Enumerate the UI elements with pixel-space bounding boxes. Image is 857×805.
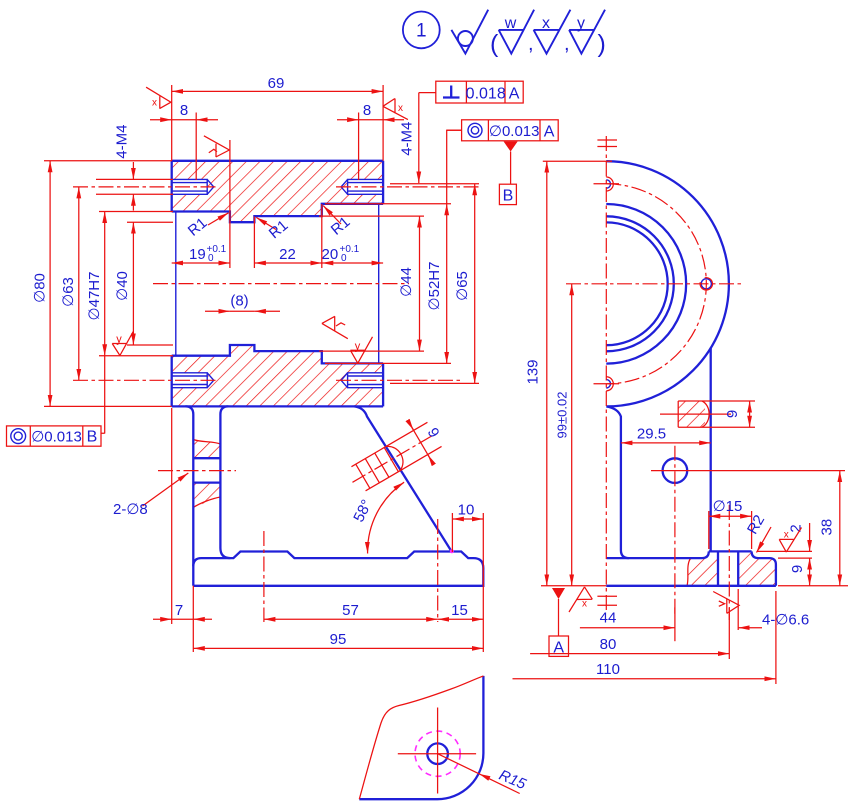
svg-text:8: 8 xyxy=(363,102,371,119)
svg-text:w: w xyxy=(504,15,517,32)
svg-text:57: 57 xyxy=(342,602,359,619)
svg-text:B: B xyxy=(87,429,98,446)
svg-text:A: A xyxy=(509,86,520,103)
svg-text:95: 95 xyxy=(330,631,347,648)
svg-text:15: 15 xyxy=(451,602,468,619)
svg-text:0: 0 xyxy=(208,253,214,264)
svg-text:0.018: 0.018 xyxy=(466,86,506,103)
svg-text:y: y xyxy=(116,334,122,346)
svg-text:1: 1 xyxy=(416,21,427,42)
svg-text:x: x xyxy=(152,98,157,109)
svg-text:4-M4: 4-M4 xyxy=(399,122,416,156)
svg-text:): ) xyxy=(598,30,606,58)
svg-text:80: 80 xyxy=(600,636,617,653)
svg-text:(: ( xyxy=(490,30,499,58)
svg-text:x: x xyxy=(542,15,550,32)
svg-text:∅47H7: ∅47H7 xyxy=(86,272,103,321)
svg-text:20: 20 xyxy=(322,246,339,263)
svg-text:99±0.02: 99±0.02 xyxy=(555,392,570,439)
svg-text:19: 19 xyxy=(189,246,206,263)
svg-text:10: 10 xyxy=(458,502,475,519)
svg-text:x: x xyxy=(398,103,403,114)
svg-text:∅44: ∅44 xyxy=(398,267,415,297)
svg-text:110: 110 xyxy=(596,661,620,678)
svg-text:4-∅6.6: 4-∅6.6 xyxy=(762,612,809,629)
svg-text:69: 69 xyxy=(268,75,285,92)
svg-text:A: A xyxy=(544,123,555,140)
svg-text:29.5: 29.5 xyxy=(637,426,666,443)
svg-text:∅80: ∅80 xyxy=(32,273,49,303)
svg-text:2: 2 xyxy=(787,524,804,532)
svg-text:∅65: ∅65 xyxy=(454,271,471,301)
svg-text:0: 0 xyxy=(341,253,347,264)
svg-text:∅40: ∅40 xyxy=(114,271,131,301)
svg-text:∅0.013: ∅0.013 xyxy=(489,123,540,140)
svg-text:∅52H7: ∅52H7 xyxy=(426,262,443,311)
svg-text:∅63: ∅63 xyxy=(60,277,77,307)
svg-text:44: 44 xyxy=(600,610,617,627)
svg-text:(8): (8) xyxy=(230,293,248,310)
svg-text:22: 22 xyxy=(279,246,296,263)
svg-text:8: 8 xyxy=(180,102,188,119)
svg-text:∅0.013: ∅0.013 xyxy=(31,428,82,445)
svg-text:2-∅8: 2-∅8 xyxy=(113,501,148,518)
svg-text:y: y xyxy=(355,341,361,353)
svg-text:,: , xyxy=(564,33,570,55)
svg-text:x: x xyxy=(582,599,587,610)
svg-text:4-M4: 4-M4 xyxy=(114,125,131,159)
svg-text:,: , xyxy=(528,33,534,55)
svg-text:7: 7 xyxy=(175,602,183,619)
svg-text:∅15: ∅15 xyxy=(713,498,743,515)
svg-text:9: 9 xyxy=(724,410,741,418)
svg-text:x: x xyxy=(784,530,789,541)
svg-text:9: 9 xyxy=(789,565,806,573)
svg-text:B: B xyxy=(503,187,514,204)
svg-text:38: 38 xyxy=(818,519,835,536)
svg-text:139: 139 xyxy=(525,359,542,384)
svg-text:y: y xyxy=(577,15,585,32)
